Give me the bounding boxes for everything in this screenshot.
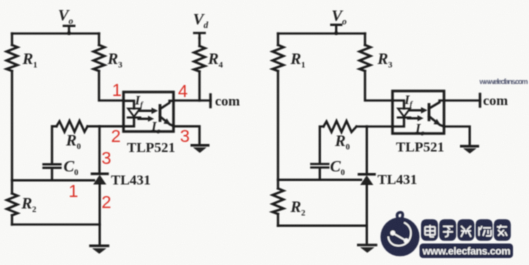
wire: cathode node vertical to TL431 (left) xyxy=(98,126,100,173)
wire: C0 bottom to reference rail (right) xyxy=(319,168,321,180)
watermark text 电子发烧友 xyxy=(421,219,511,241)
wire: R0 left lead down to C0 (right) xyxy=(320,127,324,163)
wire: light arrow 2 xyxy=(139,116,155,122)
transistor Q1 phototransistor (left optocoupler) xyxy=(160,101,174,126)
diode LED inside optocoupler (right) xyxy=(393,109,411,127)
wire: pin1 stub inside optocoupler xyxy=(124,101,135,109)
scan noise overlay xyxy=(0,0,1,1)
wire: C0 bottom to reference rail xyxy=(51,168,53,180)
capacitor C0 (right circuit) xyxy=(311,164,328,168)
wire: R2 bottom to ground rail (right) xyxy=(277,214,279,226)
node com terminal (left) xyxy=(209,95,212,108)
resistor R3 (left circuit) xyxy=(94,45,105,71)
node Vo terminal (right circuit) xyxy=(331,25,341,35)
node com terminal (right) xyxy=(479,94,482,107)
resistor R2 (left circuit) xyxy=(7,194,18,216)
wire: left vertical from top rail to R1 xyxy=(11,34,13,46)
capacitor C0 (left circuit) xyxy=(44,164,61,168)
resistor R1 (left circuit) xyxy=(7,45,18,71)
wire: R1 bottom to feedback node xyxy=(11,71,13,194)
wire: cathode node vertical to TL431 (right) xyxy=(366,127,368,175)
resistor R1 (right circuit) xyxy=(273,45,284,71)
wire: pin3 to ground (left) xyxy=(174,126,200,144)
resistor R4 (left circuit) xyxy=(194,46,205,72)
wire: R3 to optocoupler pin 1 (right) xyxy=(365,71,393,101)
op-amp U2 optocoupler TLP521 box (right circuit) xyxy=(393,91,445,134)
wire: left circuit bottom ground rail xyxy=(12,223,100,225)
resistor R0 (left circuit) xyxy=(57,121,100,132)
resistor R2 (right circuit) xyxy=(273,189,284,215)
watermark text www.elecfans.com xyxy=(420,244,514,259)
wire: R2 bottom to ground rail xyxy=(11,215,13,224)
watermark logo badge xyxy=(381,212,420,256)
wire: TL431 anode down to ground rail (left) xyxy=(99,185,101,246)
transistor Q2 phototransistor (right optocoupler) xyxy=(429,101,444,127)
ground bottom (left circuit) xyxy=(91,246,109,254)
wire: Vd to R4 xyxy=(198,38,200,46)
wire: left circuit top rail Vo xyxy=(12,32,99,34)
node Vo terminal (left circuit) xyxy=(64,26,75,35)
wire: R1 bottom to feedback node (right) xyxy=(277,71,279,189)
diode LED inside optocoupler (left) xyxy=(124,109,141,127)
wire: light arrow 1 xyxy=(140,108,159,114)
wire: reference rail from divider to TL431 ref (right) xyxy=(278,179,361,181)
ground bottom (right circuit) xyxy=(358,245,376,253)
wire: pin4 to com (left) xyxy=(174,99,211,101)
wire: TL431 anode down to ground rail (right) xyxy=(366,185,368,245)
wire: right circuit top rail Vo xyxy=(278,32,365,34)
ground under pin3 (left) xyxy=(192,145,208,153)
op-amp U1 optocoupler TLP521 box (left circuit) xyxy=(124,92,174,132)
zener TL431 (right circuit) xyxy=(359,174,375,185)
wire: right circuit bottom ground rail xyxy=(278,225,367,227)
wire: R3 to optocoupler pin 1 xyxy=(99,71,124,101)
wire: light arrow 1 (right) xyxy=(410,107,428,113)
wire: R3 top lead xyxy=(98,34,100,46)
wire: pin2 to cathode node (left) xyxy=(100,125,124,127)
wire: light arrow 2 (right) xyxy=(408,115,424,121)
wire: pin2 to cathode node (right) xyxy=(367,125,393,127)
zener TL431 (left circuit) xyxy=(92,174,108,185)
wire: pin4 to com (right) xyxy=(444,99,480,101)
ground under pin3 (right) xyxy=(461,146,478,153)
wire: pin3 to ground (right) xyxy=(444,127,470,146)
wire: right vertical to R1 xyxy=(277,34,279,46)
node Vd terminal xyxy=(194,33,205,38)
resistor R0 (right circuit) xyxy=(324,121,367,132)
wire: pin1 stub inside optocoupler (right) xyxy=(393,101,405,109)
wire: R4 bottom to com rail xyxy=(198,72,200,101)
resistor R3 (right circuit) xyxy=(360,45,371,71)
wire: R0 left lead down to C0 xyxy=(52,126,57,163)
wire: R3 top lead (right) xyxy=(364,34,366,46)
wire: reference rail from divider to TL431 ref (left) xyxy=(12,179,94,181)
